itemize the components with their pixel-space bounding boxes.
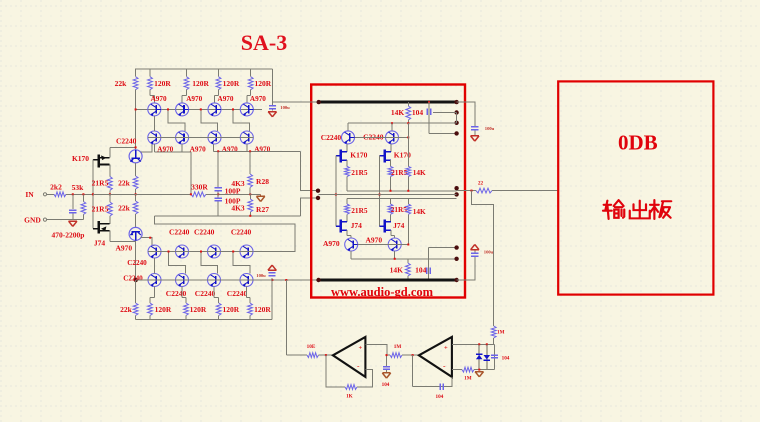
svg-text:22k: 22k [115, 79, 128, 88]
svg-text:104: 104 [412, 108, 424, 117]
svg-text:+: + [444, 344, 448, 351]
svg-text:SA-3: SA-3 [241, 30, 287, 55]
svg-text:22: 22 [478, 180, 484, 186]
svg-text:A970: A970 [254, 145, 270, 153]
svg-text:22k: 22k [120, 305, 133, 314]
svg-text:104: 104 [415, 265, 427, 274]
svg-text:21R5: 21R5 [92, 204, 109, 213]
svg-text:470-2200p: 470-2200p [52, 230, 85, 239]
svg-text:0DB: 0DB [618, 131, 658, 155]
svg-text:4K3: 4K3 [231, 203, 245, 212]
svg-text:2k2: 2k2 [50, 182, 62, 191]
svg-text:A970: A970 [186, 95, 202, 103]
svg-text:120R: 120R [254, 305, 271, 314]
svg-text:R27: R27 [256, 205, 269, 214]
svg-text:C2240: C2240 [195, 289, 216, 298]
svg-text:120R: 120R [192, 79, 209, 88]
svg-text:100u: 100u [256, 273, 266, 278]
svg-text:4K3: 4K3 [231, 179, 245, 188]
svg-text:21R5: 21R5 [351, 206, 368, 215]
svg-text:A970: A970 [151, 95, 167, 103]
svg-text:104: 104 [382, 382, 390, 388]
svg-text:120R: 120R [154, 79, 171, 88]
svg-text:120R: 120R [155, 305, 172, 314]
svg-text:C2240: C2240 [169, 228, 190, 237]
svg-text:120R: 120R [223, 79, 240, 88]
svg-text:GND: GND [24, 216, 41, 225]
svg-text:C2240: C2240 [363, 132, 384, 141]
svg-text:330R: 330R [191, 182, 208, 191]
svg-text:K170: K170 [350, 151, 367, 160]
svg-text:10E: 10E [307, 344, 316, 350]
svg-text:A970: A970 [323, 239, 340, 248]
svg-text:C2240: C2240 [231, 228, 252, 237]
svg-text:R28: R28 [256, 177, 269, 186]
svg-text:C2240: C2240 [227, 289, 248, 298]
svg-text:104: 104 [502, 355, 510, 361]
svg-text:22k: 22k [118, 204, 131, 213]
svg-text:21R5: 21R5 [391, 168, 408, 177]
svg-text:J74: J74 [351, 221, 363, 230]
svg-text:J74: J74 [393, 221, 405, 230]
svg-text:100u: 100u [484, 250, 494, 255]
svg-text:A970: A970 [218, 95, 234, 103]
svg-text:1M: 1M [394, 344, 402, 350]
svg-text:K170: K170 [72, 154, 89, 163]
svg-text:C2240: C2240 [123, 275, 143, 283]
svg-text:120R: 120R [222, 305, 239, 314]
svg-text:1M: 1M [464, 375, 472, 381]
svg-text:14K: 14K [413, 168, 426, 177]
svg-text:C2240: C2240 [116, 137, 137, 146]
svg-text:A970: A970 [365, 236, 382, 245]
svg-text:A970: A970 [115, 244, 132, 253]
svg-text:104: 104 [436, 394, 444, 400]
svg-text:14K: 14K [413, 207, 426, 216]
svg-text:100u: 100u [280, 105, 290, 110]
svg-text:120R: 120R [254, 79, 271, 88]
svg-text:J74: J74 [94, 239, 106, 248]
svg-text:+: + [358, 344, 362, 351]
svg-text:120R: 120R [190, 305, 207, 314]
svg-text:A970: A970 [190, 145, 206, 153]
svg-text:14K: 14K [391, 108, 405, 117]
svg-text:C2240: C2240 [321, 133, 342, 142]
svg-text:21R5: 21R5 [351, 168, 368, 177]
svg-text:C2240: C2240 [194, 228, 215, 237]
svg-text:14K: 14K [390, 265, 404, 274]
svg-text:C2240: C2240 [127, 259, 147, 267]
svg-text:A970: A970 [250, 95, 266, 103]
svg-text:21R5: 21R5 [92, 178, 109, 187]
svg-text:22k: 22k [118, 179, 131, 188]
svg-text:A970: A970 [222, 145, 238, 153]
svg-text:1M: 1M [497, 330, 505, 336]
svg-text:100u: 100u [485, 126, 495, 131]
svg-text:53k: 53k [72, 183, 85, 192]
svg-text:IN: IN [25, 190, 34, 199]
svg-text:www.audio-gd.com: www.audio-gd.com [331, 285, 434, 299]
svg-text:C2240: C2240 [166, 289, 187, 298]
svg-text:1K: 1K [346, 393, 353, 399]
